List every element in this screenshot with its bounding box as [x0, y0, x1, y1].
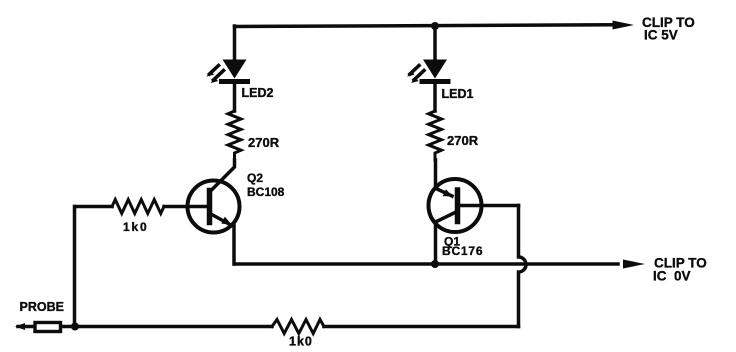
node junction Q1 collector on 0V rail: [431, 260, 439, 268]
arrow clip to 5V: [613, 21, 635, 30]
wire left vertical (probe to 1k0): [73, 207, 77, 327]
wire Q2 base lead: [75, 205, 112, 209]
svg-text:270R: 270R: [447, 133, 479, 148]
svg-text:1k0: 1k0: [289, 335, 313, 349]
LED2: [207, 60, 248, 84]
wire probe lead: [18, 325, 34, 329]
wire Q2 emitter down to 0V rail: [232, 226, 236, 265]
svg-text:PROBE: PROBE: [20, 300, 64, 314]
svg-text:LED1: LED1: [442, 87, 474, 101]
resistor 1k0 (bottom feedback): [272, 320, 324, 334]
svg-text:BC176: BC176: [442, 244, 483, 258]
wire LED1 branch drop from rail: [433, 26, 437, 60]
wire LED2 cathode to R 270R: [233, 84, 237, 111]
wire Q1 base to right vertical: [460, 204, 519, 208]
wire top supply rail: [235, 25, 615, 27]
wire middle 0V rail: [235, 262, 619, 266]
svg-text:IC 5V: IC 5V: [644, 28, 678, 43]
transistor Q1 BC176: [429, 179, 482, 232]
svg-text:1k0: 1k0: [123, 220, 148, 234]
wire bottom rail left of 1k0: [62, 325, 272, 329]
resistor 270R (right, LED1 branch): [429, 111, 442, 160]
svg-text:BC108: BC108: [247, 185, 285, 199]
wire LED1 cathode to R 270R: [433, 84, 437, 111]
transistor Q2 BC108: [188, 181, 240, 233]
wire 270R to Q2 collector: [210, 160, 235, 192]
svg-text:Q2: Q2: [247, 171, 263, 185]
probe tip: [15, 323, 25, 330]
node junction probe / left branch: [71, 323, 79, 331]
wire LED2 branch drop from rail: [233, 26, 237, 60]
arrow clip to 0V: [623, 260, 645, 269]
node junction at LED1 / 5V rail: [431, 22, 439, 30]
wire 270R to Q1 emitter: [434, 160, 438, 189]
resistor 1k0 (base of Q2): [112, 200, 164, 214]
wire Q1 collector down to junction: [434, 222, 438, 265]
wire 1k0 to Q2 base: [164, 205, 208, 209]
wire right vertical with hop over 0V rail: [519, 206, 527, 327]
probe body: [35, 323, 61, 332]
svg-text:IC 0V: IC 0V: [653, 269, 691, 284]
svg-text:270R: 270R: [248, 135, 280, 150]
svg-text:LED2: LED2: [242, 86, 274, 100]
LED1: [407, 60, 448, 84]
resistor 270R (left, LED2 branch): [228, 111, 241, 160]
wire bottom rail right of 1k0: [324, 325, 519, 329]
